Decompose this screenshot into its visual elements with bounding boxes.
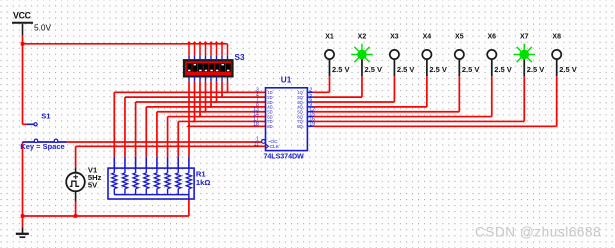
svg-text:S1: S1 — [41, 112, 50, 121]
svg-text:18: 18 — [253, 121, 259, 127]
svg-text:8Q: 8Q — [297, 124, 302, 129]
svg-text:19: 19 — [309, 121, 315, 127]
svg-text:X8: X8 — [552, 33, 561, 40]
svg-text:11: 11 — [254, 141, 259, 147]
svg-text:2.5 V: 2.5 V — [462, 65, 480, 74]
svg-text:S3: S3 — [235, 53, 245, 62]
svg-text:2.5 V: 2.5 V — [559, 65, 577, 74]
svg-text:VCC: VCC — [13, 11, 32, 21]
svg-text:U1: U1 — [281, 75, 292, 84]
svg-text:5.0V: 5.0V — [34, 22, 52, 32]
svg-text:2.5 V: 2.5 V — [494, 65, 512, 74]
svg-text:2.5 V: 2.5 V — [429, 65, 447, 74]
svg-text:CLK: CLK — [270, 144, 280, 150]
svg-text:8D: 8D — [267, 124, 272, 129]
svg-text:CSDN @zhusl6688: CSDN @zhusl6688 — [475, 225, 601, 240]
svg-text:X4: X4 — [423, 33, 432, 40]
svg-text:X7: X7 — [520, 33, 529, 40]
svg-text:2.5 V: 2.5 V — [332, 65, 350, 74]
svg-text:X1: X1 — [325, 33, 334, 40]
svg-text:X6: X6 — [488, 33, 497, 40]
svg-text:X2: X2 — [358, 33, 367, 40]
svg-text:X3: X3 — [390, 33, 399, 40]
svg-text:Key = Space: Key = Space — [20, 142, 64, 151]
svg-text:74LS374DW: 74LS374DW — [264, 152, 305, 161]
svg-text:X5: X5 — [455, 33, 464, 40]
svg-text:2.5 V: 2.5 V — [397, 65, 415, 74]
svg-text:2.5 V: 2.5 V — [364, 65, 382, 74]
svg-text:5V: 5V — [88, 181, 98, 190]
svg-text:1kΩ: 1kΩ — [196, 178, 211, 187]
svg-text:2.5 V: 2.5 V — [527, 65, 545, 74]
